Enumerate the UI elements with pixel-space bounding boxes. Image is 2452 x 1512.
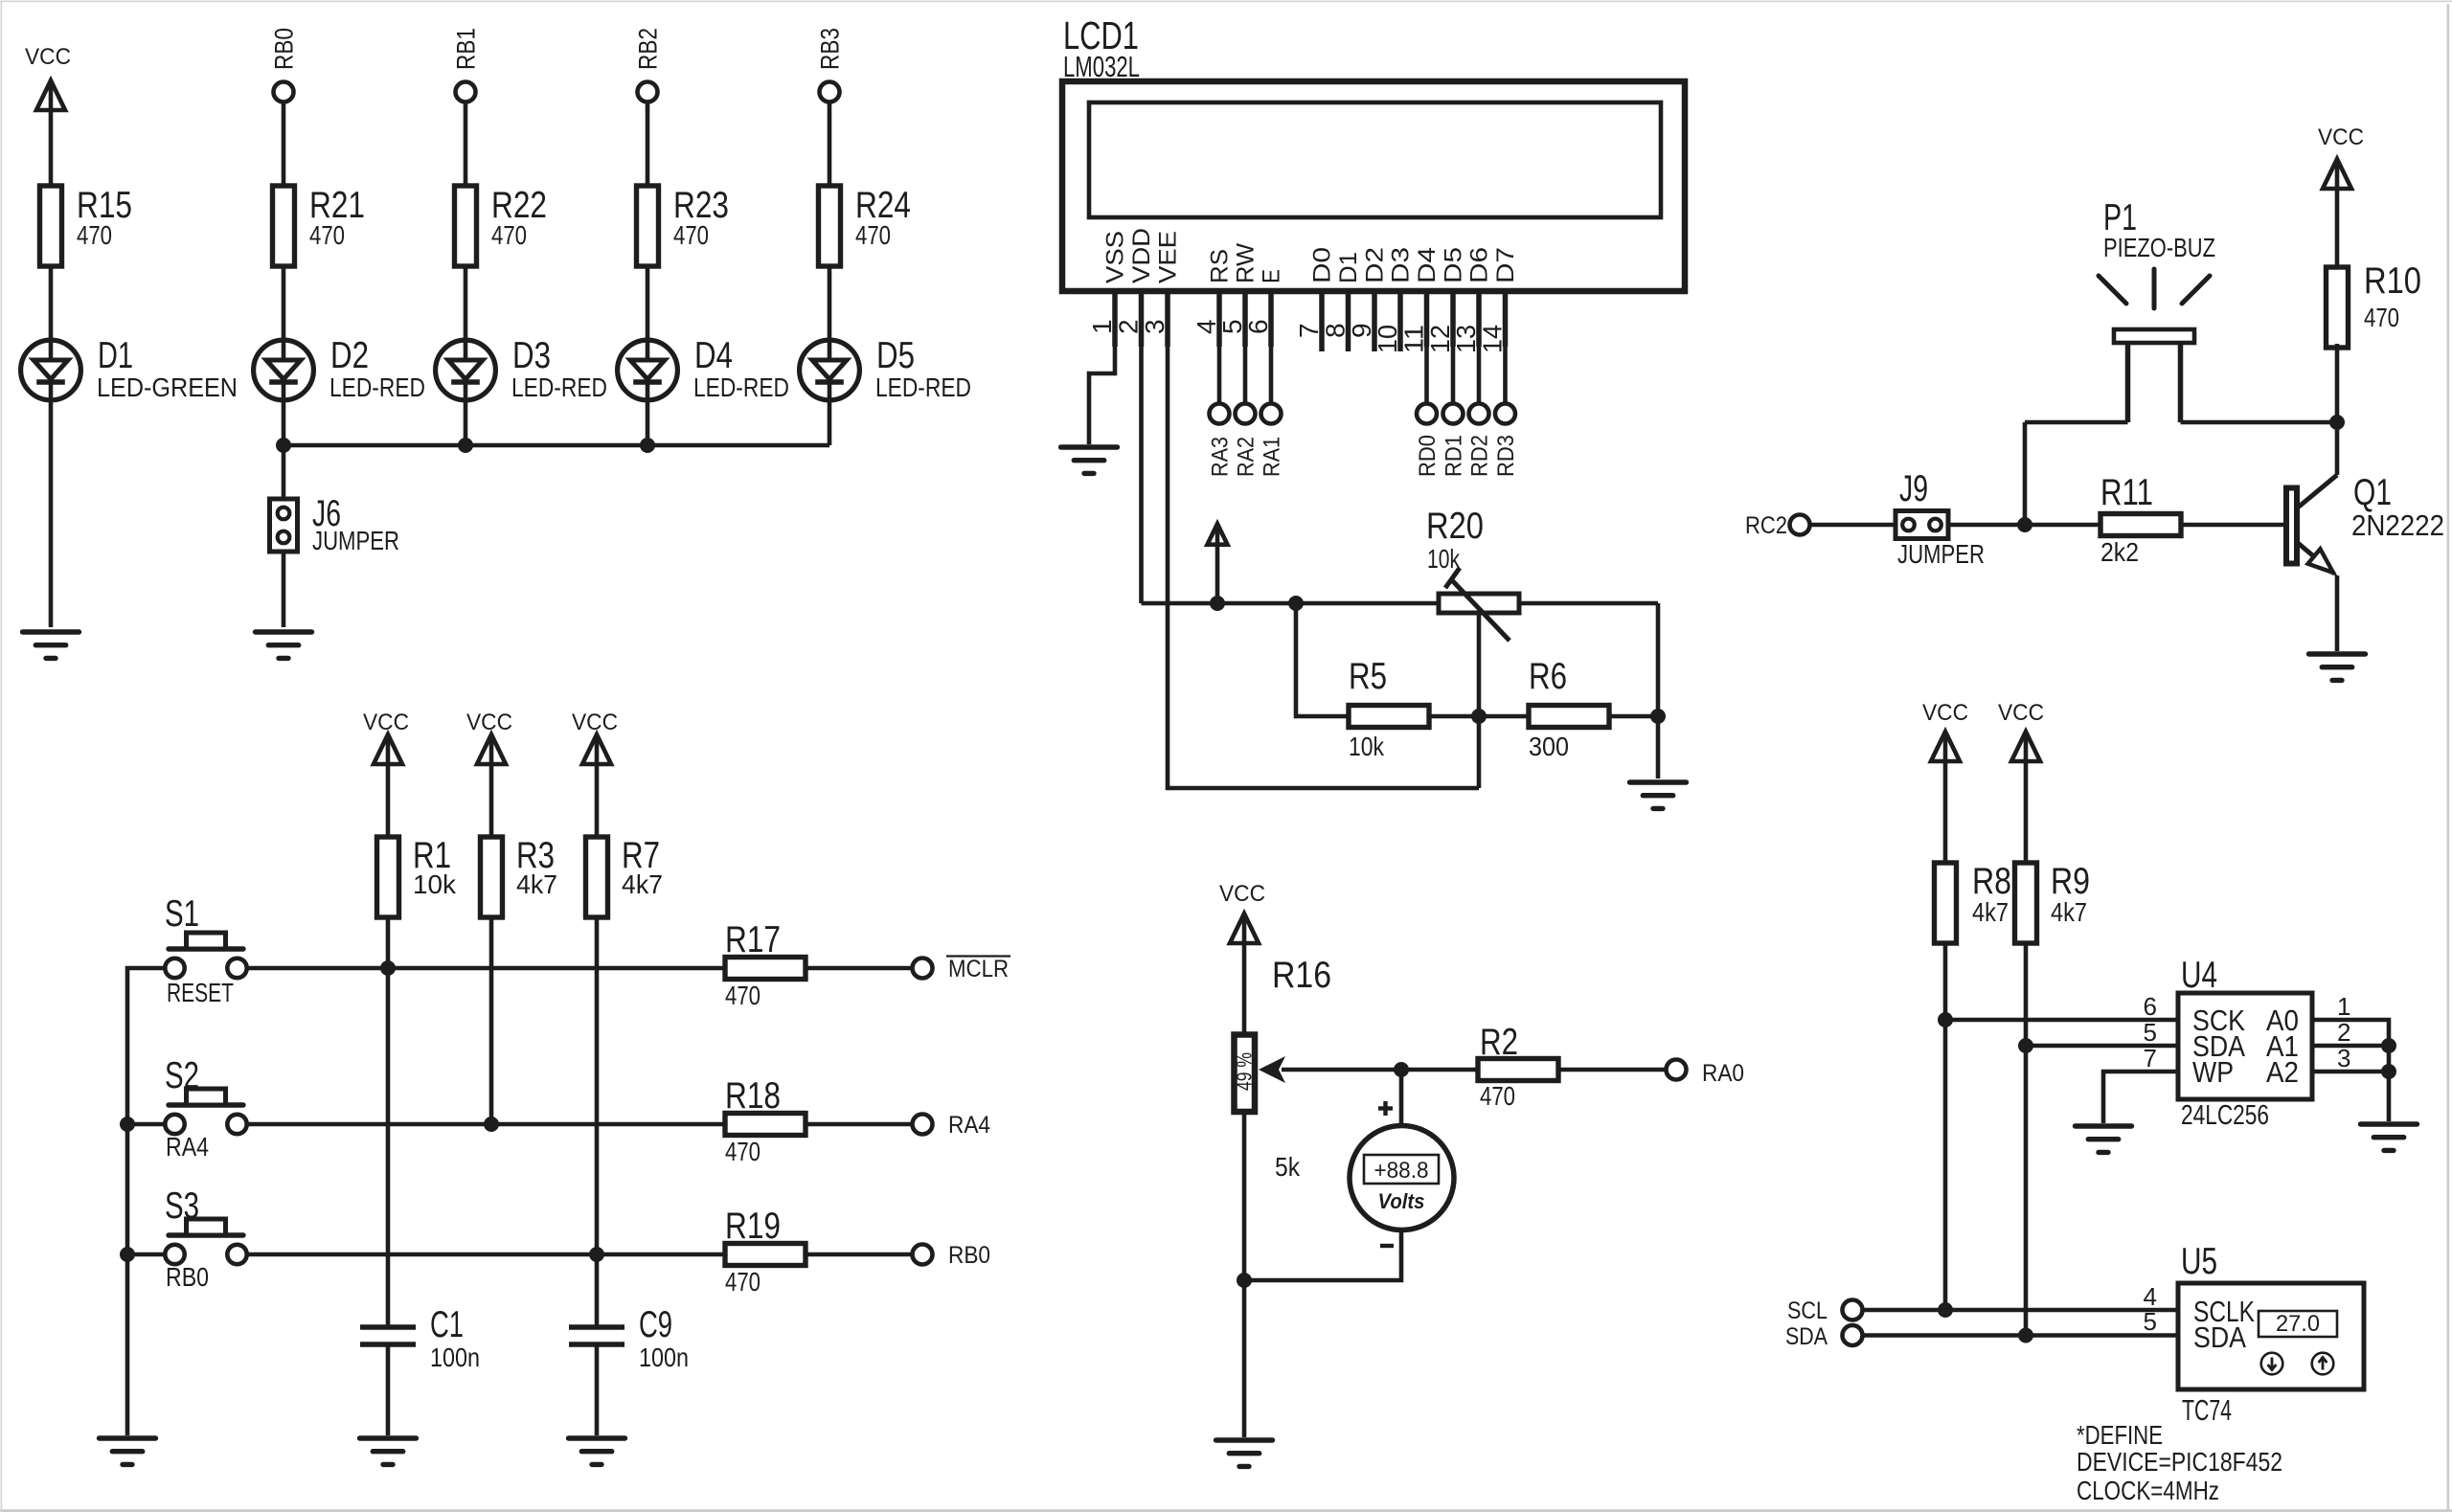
wire riser to base wire <box>2023 422 2028 525</box>
svg-text:VDD: VDD <box>1128 228 1155 283</box>
ground below U4 address pins <box>2361 1124 2418 1150</box>
wire VCC to R15 <box>49 110 54 186</box>
svg-text:13: 13 <box>1451 325 1481 353</box>
svg-text:5k: 5k <box>1275 1152 1301 1182</box>
VCC power arrow for R15 column <box>36 80 65 110</box>
ground below R6 <box>1630 782 1687 808</box>
wire VCC to R16 <box>1242 943 1247 1033</box>
wire LCD pin to terminal RA1 <box>1269 347 1274 404</box>
wire R23 to D4 <box>646 266 650 338</box>
svg-text:2: 2 <box>2337 1018 2350 1047</box>
svg-text:5: 5 <box>2144 1307 2157 1336</box>
switch S1 <box>165 933 246 978</box>
terminal RB1 <box>456 82 476 102</box>
junction R8-SCK <box>1938 1012 1953 1027</box>
junction at VCC arrow on contrast rail <box>1210 596 1225 611</box>
resistor R5 body <box>1349 706 1429 728</box>
svg-text:D3: D3 <box>1388 247 1415 283</box>
jumper J6 <box>270 499 298 552</box>
LCD pin 7 stub <box>1319 291 1325 351</box>
LED D1 <box>21 340 81 400</box>
ground below C1 <box>360 1438 417 1464</box>
piezo sound rays <box>2099 269 2210 308</box>
switch S2 <box>165 1089 246 1134</box>
svg-text:RC2: RC2 <box>1745 512 1787 539</box>
wire D2 to cathode bus <box>282 402 286 445</box>
wire J6 to ground <box>282 552 286 627</box>
LCD pin 1 stub <box>1112 291 1118 347</box>
potentiometer R16 body <box>1235 1035 1256 1113</box>
wire S3 left contact to rail <box>127 1252 166 1257</box>
terminal MCLR <box>913 959 933 979</box>
junction R3 column on S2 wire <box>484 1117 499 1132</box>
wire R9 column down to SDA <box>2024 943 2029 1336</box>
wire wiper node down to voltmeter <box>1399 1070 1404 1126</box>
svg-text:LED-GREEN: LED-GREEN <box>97 372 238 402</box>
svg-text:VCC: VCC <box>1219 881 1265 907</box>
resistor R8 body <box>1935 863 1957 943</box>
wire R20 right to right rail <box>1519 601 1658 606</box>
resistor R22 body <box>455 186 477 266</box>
svg-text:5: 5 <box>2144 1018 2157 1047</box>
terminal RB0 <box>913 1245 933 1265</box>
svg-text:LED-RED: LED-RED <box>329 372 425 402</box>
wire RB2 terminal to R23 <box>646 103 650 186</box>
svg-text:4k7: 4k7 <box>516 869 557 899</box>
svg-text:1: 1 <box>1087 319 1117 334</box>
wire R7 column down to C9 <box>595 915 600 1327</box>
wire R6 to right rail <box>1608 714 1658 719</box>
svg-text:4k7: 4k7 <box>622 869 663 899</box>
svg-text:R19: R19 <box>725 1206 781 1247</box>
svg-text:D5: D5 <box>876 335 915 376</box>
wire voltmeter to pot column <box>1244 1230 1401 1280</box>
wire contrast rail down to R5 <box>1296 603 1349 716</box>
wire SDA pin to R9 column <box>2026 1044 2178 1049</box>
svg-text:470: 470 <box>725 981 761 1010</box>
wire piezo left leg to riser <box>2025 420 2128 425</box>
wire R1 column down to C1 <box>386 915 391 1327</box>
svg-text:RB0: RB0 <box>166 1262 209 1292</box>
potentiometer R20 body <box>1439 594 1519 613</box>
svg-text:JUMPER: JUMPER <box>1897 539 1985 569</box>
svg-text:6: 6 <box>1243 319 1273 334</box>
svg-text:49 %: 49 % <box>1233 1052 1257 1091</box>
wire A2 to right rail <box>2312 1070 2389 1074</box>
LCD pin 8 stub <box>1346 291 1351 351</box>
wire VCC to R9 <box>2024 761 2029 863</box>
resistor R11 body <box>2100 514 2181 536</box>
svg-text:CLOCK=4MHz: CLOCK=4MHz <box>2077 1476 2219 1505</box>
svg-text:470: 470 <box>2364 303 2399 332</box>
svg-text:8: 8 <box>1321 323 1351 338</box>
right rail wire down to ground <box>1656 603 1661 779</box>
minus sign of voltmeter <box>1380 1244 1394 1248</box>
svg-text:TC74: TC74 <box>2182 1393 2232 1427</box>
svg-text:RA0: RA0 <box>1702 1060 1744 1087</box>
resistor R17 body <box>725 958 806 980</box>
svg-text:RW: RW <box>1233 243 1260 283</box>
wire S1 to R17 <box>246 966 725 971</box>
wire VCC arrow to resistor <box>595 764 600 837</box>
svg-text:RD2: RD2 <box>1467 435 1493 477</box>
LED D5 <box>800 340 860 400</box>
svg-text:24LC256: 24LC256 <box>2181 1100 2269 1131</box>
terminal RB2 <box>638 82 658 102</box>
VCC power arrow for R9 <box>2011 732 2040 761</box>
VCC power arrow for R16 <box>1230 914 1259 943</box>
wire SCL to SCLK pin <box>1862 1308 2178 1313</box>
LCD pin 13 stub <box>1476 291 1482 347</box>
wire R21 to D2 <box>282 266 286 338</box>
LCD pin 2 stub <box>1139 291 1145 347</box>
small VCC power arrow on contrast rail <box>1208 524 1228 545</box>
wire LCD pin 1 to ground <box>1089 347 1115 444</box>
wire R3 column down to S2 wire <box>489 915 494 1124</box>
resistor R6 body <box>1529 706 1609 728</box>
svg-text:VCC: VCC <box>1998 700 2044 726</box>
piezo buzzer P1 body <box>2114 329 2194 343</box>
svg-text:R10: R10 <box>2364 260 2421 302</box>
svg-text:VSS: VSS <box>1102 231 1129 283</box>
svg-text:RB0: RB0 <box>948 1242 990 1269</box>
svg-text:470: 470 <box>725 1137 761 1166</box>
svg-text:7: 7 <box>1294 323 1324 338</box>
jumper J9 <box>1896 511 1948 539</box>
svg-text:D4: D4 <box>694 335 733 376</box>
junction wiper node <box>1394 1062 1409 1077</box>
terminal RC2 <box>1790 515 1810 535</box>
wire LCD pin 2 (VDD) down to contrast rail <box>1139 347 1144 603</box>
svg-text:RB1: RB1 <box>452 28 481 70</box>
wire LCD pin to terminal RA3 <box>1217 347 1222 404</box>
svg-text:RB3: RB3 <box>816 28 845 70</box>
svg-text:2N2222: 2N2222 <box>2351 508 2444 542</box>
R20 wiper diagonal <box>1451 579 1510 641</box>
svg-text:MCLR: MCLR <box>948 956 1009 982</box>
svg-text:7: 7 <box>2144 1044 2157 1072</box>
svg-text:C9: C9 <box>639 1304 672 1345</box>
junction A2 rail <box>2381 1064 2396 1079</box>
wire S3 to R19 <box>246 1252 725 1257</box>
ground below J6 <box>256 632 312 658</box>
wire LCD pin to terminal RA2 <box>1243 347 1248 404</box>
svg-text:WP: WP <box>2192 1055 2234 1089</box>
resistor R1 body <box>377 837 399 917</box>
svg-text:SDA: SDA <box>1785 1323 1828 1350</box>
LCD pin 4 stub <box>1216 291 1222 347</box>
svg-text:R18: R18 <box>725 1075 781 1117</box>
LCD pin 10 stub <box>1397 291 1403 351</box>
resistor R10 body <box>2327 267 2349 348</box>
svg-text:SCL: SCL <box>1787 1298 1828 1324</box>
svg-text:RB0: RB0 <box>270 28 299 70</box>
svg-text:C1: C1 <box>430 1304 464 1345</box>
resistor R21 body <box>273 186 295 266</box>
svg-text:U4: U4 <box>2181 955 2217 996</box>
svg-text:2k2: 2k2 <box>2100 537 2139 567</box>
svg-text:470: 470 <box>77 220 112 250</box>
left window edge line <box>1 2 3 1512</box>
svg-text:VCC: VCC <box>572 710 618 735</box>
wire R16 down to ground <box>1242 1114 1247 1437</box>
wire SCK pin to R8 column <box>1945 1018 2178 1023</box>
svg-text:E: E <box>1259 269 1285 283</box>
svg-text:R9: R9 <box>2051 861 2090 902</box>
wire C9 to ground <box>595 1344 600 1435</box>
svg-text:SDA: SDA <box>2193 1320 2246 1354</box>
svg-text:27.0: 27.0 <box>2276 1311 2320 1337</box>
wire R24 to D5 <box>828 266 832 338</box>
LED D3 <box>436 340 496 400</box>
wire A1 to right rail <box>2312 1044 2389 1049</box>
svg-text:10k: 10k <box>1427 544 1461 574</box>
svg-text:D4: D4 <box>1414 247 1441 283</box>
wire SDA to U5 SDA pin <box>1862 1333 2178 1338</box>
LCD pin 12 stub <box>1450 291 1456 347</box>
svg-text:2: 2 <box>1114 319 1144 334</box>
voltmeter body <box>1350 1126 1454 1230</box>
ground below Q1 emitter <box>2309 654 2366 680</box>
wire piezo right leg to collector junction <box>2181 420 2338 425</box>
contrast rail wire <box>1142 601 1440 606</box>
svg-text:RD3: RD3 <box>1493 435 1519 477</box>
wire LCD pin to terminal RD1 <box>1451 347 1456 404</box>
resistor R19 body <box>725 1244 806 1266</box>
svg-text:470: 470 <box>725 1267 761 1297</box>
junction at D2 cathode <box>276 438 291 453</box>
wire R11 to Q1 base <box>2181 523 2284 528</box>
svg-text:VCC: VCC <box>363 710 409 735</box>
svg-text:RA4: RA4 <box>166 1132 209 1162</box>
wire junction to R11 <box>2025 523 2100 528</box>
top window edge line <box>0 1 2452 3</box>
wire bus to J6 <box>282 445 286 499</box>
wire junction to R6 <box>1479 714 1529 719</box>
wire VCC arrow to resistor <box>489 764 494 837</box>
svg-text:VCC: VCC <box>25 44 71 70</box>
wire RB3 terminal to R24 <box>828 103 832 186</box>
terminal RA2 <box>1236 404 1256 424</box>
wire D4 to cathode bus <box>646 402 650 445</box>
svg-text:Q1: Q1 <box>2353 472 2392 513</box>
svg-text:R11: R11 <box>2100 472 2153 513</box>
terminal RA0 <box>1667 1060 1687 1080</box>
wire RC2 to J9 <box>1809 523 1896 528</box>
svg-text:A2: A2 <box>2266 1055 2299 1089</box>
wire C1 to ground <box>386 1344 391 1435</box>
wire R17 to MCLR terminal <box>806 966 913 971</box>
svg-text:S1: S1 <box>165 893 199 935</box>
wire small VCC arrow stem <box>1215 545 1220 603</box>
left rail wire <box>127 968 166 1435</box>
LCD pin 6 stub <box>1268 291 1274 347</box>
terminal RD2 <box>1469 404 1489 424</box>
LCD pin 9 stub <box>1372 291 1377 351</box>
svg-text:U5: U5 <box>2181 1241 2217 1282</box>
terminal SCL <box>1843 1300 1863 1320</box>
wire R15 to D1 <box>49 266 54 338</box>
wire S2 left contact to rail <box>127 1122 166 1127</box>
LCD pin 3 stub <box>1165 291 1170 347</box>
terminal RA1 <box>1261 404 1282 424</box>
IC U4 body <box>2178 993 2312 1099</box>
svg-text:1: 1 <box>2337 992 2350 1021</box>
ground below R16 <box>1216 1440 1273 1466</box>
svg-text:R16: R16 <box>1272 955 1331 996</box>
svg-text:D5: D5 <box>1441 247 1467 283</box>
svg-text:PIEZO-BUZ: PIEZO-BUZ <box>2103 233 2215 262</box>
resistor R9 body <box>2015 863 2037 943</box>
svg-text:R5: R5 <box>1349 656 1387 697</box>
LED D4 <box>618 340 678 400</box>
svg-text:470: 470 <box>855 220 891 250</box>
svg-text:10k: 10k <box>413 869 457 899</box>
svg-text:VCC: VCC <box>466 710 512 735</box>
resistor R18 body <box>725 1114 806 1136</box>
transistor Q1 <box>2286 422 2337 651</box>
junction base node <box>2017 517 2032 532</box>
U5 down button <box>2261 1353 2283 1375</box>
resistor R15 body <box>40 186 62 266</box>
wire wiper node to R2 <box>1401 1068 1478 1072</box>
wire J9 to junction <box>1948 523 2025 528</box>
wire VCC arrow to resistor <box>386 764 391 837</box>
terminal RA3 <box>1210 404 1230 424</box>
terminal SDA <box>1843 1325 1863 1345</box>
wire A0 to right rail <box>2312 1020 2389 1121</box>
svg-text:R6: R6 <box>1529 656 1567 697</box>
svg-text:100n: 100n <box>639 1343 689 1372</box>
terminal RB3 <box>820 82 840 102</box>
right window edge line <box>2447 4 2450 1512</box>
svg-text:D7: D7 <box>1492 247 1519 283</box>
svg-text:470: 470 <box>1480 1081 1515 1111</box>
ground below LCD pin 1 <box>1061 447 1118 473</box>
bottom window edge line <box>0 1509 2452 1512</box>
U5 up button <box>2312 1353 2334 1375</box>
svg-text:D1: D1 <box>1335 252 1362 283</box>
junction at D4 cathode <box>640 438 655 453</box>
ground below C9 <box>569 1438 625 1464</box>
wire R19 to RB0 terminal <box>806 1252 913 1257</box>
wire LCD pin 3 (VEE) down to bottom rail <box>1168 347 1479 788</box>
junction at R5 drop on contrast rail <box>1288 596 1304 611</box>
wire RB0 terminal to R21 <box>282 103 286 186</box>
LCD pin 5 stub <box>1242 291 1248 347</box>
R16 wiper arrow <box>1282 1068 1401 1072</box>
wire R18 to RA4 terminal <box>806 1122 913 1127</box>
junction R6 right rail <box>1650 709 1666 724</box>
wire LCD pin to terminal RD2 <box>1477 347 1482 404</box>
svg-text:3: 3 <box>2337 1044 2350 1072</box>
junction collector node <box>2329 415 2345 430</box>
capacitor C1 <box>360 1327 416 1344</box>
svg-text:RA1: RA1 <box>1260 437 1285 477</box>
ground below left rail <box>100 1438 156 1464</box>
VCC power arrow for R10 <box>2323 159 2351 189</box>
svg-text:D0: D0 <box>1309 247 1336 283</box>
svg-text:10: 10 <box>1373 325 1402 353</box>
svg-text:Volts: Volts <box>1378 1189 1425 1213</box>
resistor R7 body <box>586 837 608 917</box>
wire S2 to R18 <box>246 1122 725 1127</box>
svg-text:4k7: 4k7 <box>1972 897 2009 927</box>
VCC power arrow <box>477 734 506 764</box>
junction R5-R6-wiper <box>1471 709 1487 724</box>
svg-text:14: 14 <box>1478 325 1508 353</box>
svg-text:LED-RED: LED-RED <box>511 372 607 402</box>
U5 display <box>2259 1311 2337 1337</box>
voltmeter display <box>1364 1155 1439 1184</box>
svg-text:*DEFINE: *DEFINE <box>2077 1420 2163 1450</box>
svg-text:RB2: RB2 <box>634 28 663 70</box>
svg-text:10k: 10k <box>1349 732 1385 761</box>
terminal RA4 <box>913 1115 933 1135</box>
junction left rail S2 <box>120 1117 135 1132</box>
svg-text:470: 470 <box>673 220 709 250</box>
svg-text:4k7: 4k7 <box>2051 897 2087 927</box>
VCC power arrow <box>582 734 611 764</box>
svg-text:3: 3 <box>1140 319 1169 334</box>
svg-text:RESET: RESET <box>167 978 234 1007</box>
svg-text:470: 470 <box>491 220 527 250</box>
terminal RB0 <box>274 82 294 102</box>
svg-text:100n: 100n <box>430 1343 480 1372</box>
svg-text:R17: R17 <box>725 919 781 960</box>
svg-text:VEE: VEE <box>1155 231 1182 283</box>
svg-text:LED-RED: LED-RED <box>693 372 789 402</box>
LED D2 <box>254 340 314 400</box>
wire RB1 terminal to R22 <box>464 103 468 186</box>
svg-text:RA3: RA3 <box>1208 437 1234 477</box>
wire D1 to ground <box>49 402 54 627</box>
resistor R3 body <box>481 837 503 917</box>
terminal RD1 <box>1443 404 1464 424</box>
svg-text:RS: RS <box>1207 249 1234 283</box>
svg-text:R20: R20 <box>1426 506 1484 547</box>
svg-text:D3: D3 <box>512 335 551 376</box>
plus sign of voltmeter <box>1378 1101 1393 1116</box>
svg-text:D1: D1 <box>98 335 133 376</box>
junction A1 rail <box>2381 1038 2396 1053</box>
svg-text:VCC: VCC <box>2318 124 2364 150</box>
terminal RD0 <box>1417 404 1437 424</box>
junction R9-SDA <box>2018 1038 2033 1053</box>
junction R9-SDA net <box>2018 1328 2033 1343</box>
ground below WP <box>2076 1126 2132 1152</box>
svg-text:JUMPER: JUMPER <box>312 526 399 555</box>
ground below D1 <box>23 632 79 658</box>
svg-text:RA4: RA4 <box>948 1112 990 1139</box>
svg-text:+88.8: +88.8 <box>1374 1158 1429 1184</box>
junction at D3 cathode <box>458 438 473 453</box>
wire D5 to cathode bus <box>828 402 832 445</box>
svg-text:DEVICE=PIC18F452: DEVICE=PIC18F452 <box>2077 1447 2282 1477</box>
resistor R23 body <box>637 186 659 266</box>
junction voltmeter return <box>1237 1273 1252 1288</box>
LCD pin 14 stub <box>1503 291 1509 347</box>
junction R1 column on S1 wire <box>380 960 396 976</box>
wire LCD pin to terminal RD0 <box>1424 347 1429 404</box>
junction left rail S3 <box>120 1247 135 1262</box>
svg-text:470: 470 <box>309 220 345 250</box>
wire R20 wiper down <box>1477 613 1482 788</box>
wire WP pin to ground <box>2103 1072 2178 1123</box>
wire VCC to R10 <box>2335 189 2340 267</box>
VCC power arrow <box>374 734 402 764</box>
wire R22 to D3 <box>464 266 468 338</box>
